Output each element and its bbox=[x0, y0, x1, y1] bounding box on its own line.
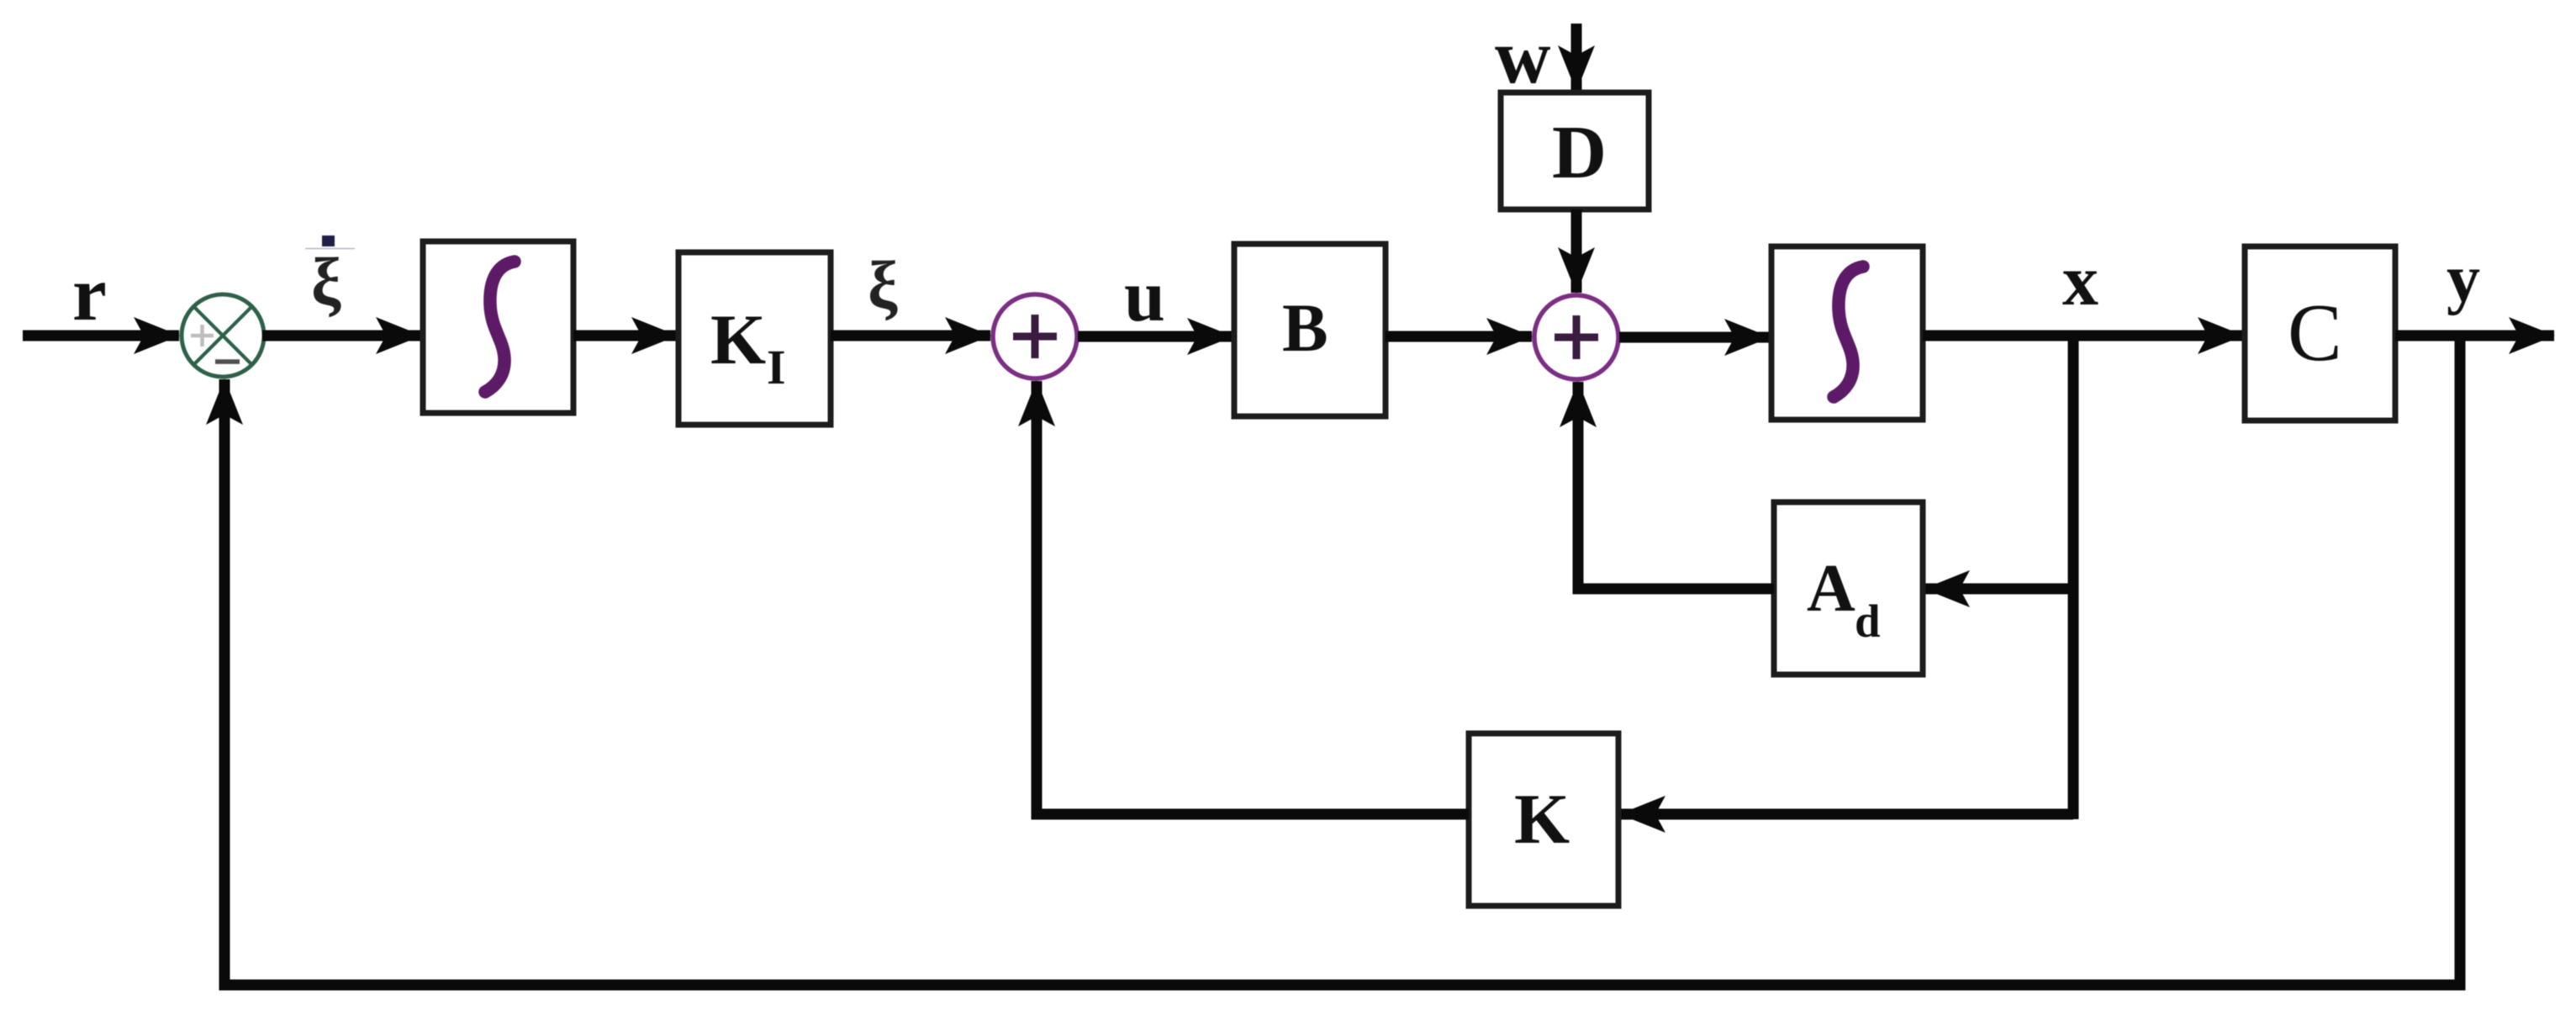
wire B to summing S3 bbox=[1386, 331, 1532, 342]
svg-text:u: u bbox=[1124, 256, 1165, 337]
summing junction S3 (purple +) bbox=[1534, 295, 1618, 379]
svg-text:ξ: ξ bbox=[868, 249, 898, 323]
plus sign (light gray) inside S1 left bbox=[191, 325, 214, 347]
disturbance block D bbox=[1501, 93, 1649, 209]
integrator I1 box bbox=[423, 241, 573, 413]
svg-text:x: x bbox=[2062, 240, 2098, 320]
svg-text:A: A bbox=[1807, 552, 1855, 626]
wire S1 to integrator I1 bbox=[262, 331, 421, 341]
minus sign inside S1 bottom bbox=[215, 359, 240, 364]
svg-text:w: w bbox=[1495, 13, 1550, 99]
gain block B bbox=[1234, 244, 1386, 416]
summing junction S1 (green, r - y) bbox=[182, 294, 264, 377]
wire I2 to C (through x node) bbox=[1923, 331, 2243, 341]
svg-text:d: d bbox=[1855, 595, 1881, 647]
wire KI to summing S2 bbox=[831, 331, 990, 341]
svg-text:K: K bbox=[1514, 780, 1570, 859]
wire D to summing S3 bbox=[1571, 209, 1582, 293]
svg-text:ξ: ξ bbox=[311, 246, 341, 320]
wire S2 to B bbox=[1078, 331, 1233, 342]
wire x branch into K bbox=[1620, 809, 2073, 820]
svg-text:y: y bbox=[2447, 242, 2480, 316]
node xi-dot label bbox=[305, 236, 355, 320]
wire x branch down bbox=[2068, 336, 2079, 819]
gain block KI bbox=[678, 252, 831, 425]
wire K output up into S2 bbox=[1037, 381, 1469, 814]
summing junction S2 (purple +) bbox=[993, 294, 1077, 378]
svg-text:C: C bbox=[2288, 288, 2342, 378]
svg-text:r: r bbox=[72, 251, 107, 336]
wire r input arrow into summing junction bbox=[23, 331, 179, 341]
svg-text:K: K bbox=[710, 300, 766, 379]
state feedback block Ad bbox=[1774, 502, 1923, 675]
wire Ad output up into S3 bbox=[1578, 382, 1774, 589]
svg-text:B: B bbox=[1282, 289, 1328, 366]
integrator I2 box bbox=[1771, 246, 1923, 420]
gain block C bbox=[2245, 246, 2395, 421]
wire C to output y bbox=[2395, 331, 2554, 341]
svg-text:D: D bbox=[1552, 111, 1607, 194]
wire I1 to KI bbox=[573, 331, 677, 341]
wire y branch feedback down, along bottom, up into S1 bbox=[224, 336, 2460, 985]
svg-text:I: I bbox=[767, 340, 786, 394]
wire x branch into Ad bbox=[1924, 584, 2073, 595]
state feedback block K bbox=[1469, 733, 1618, 906]
wire S3 to integrator I2 bbox=[1619, 332, 1770, 343]
wire w input arrow into D bbox=[1571, 24, 1582, 91]
